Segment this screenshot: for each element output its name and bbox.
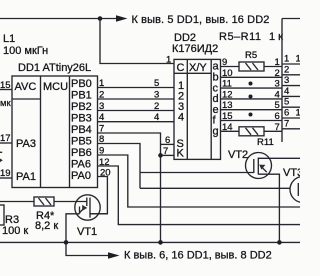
node S K tie junction xyxy=(158,153,163,158)
svg-text:4: 4 xyxy=(178,112,184,124)
wire bus to bottom arrow xyxy=(66,242,108,255)
svg-text:К выв. 6, 16 DD1, выв. 8 DD2: К выв. 6, 16 DD1, выв. 8 DD2 xyxy=(124,250,272,262)
svg-text:7: 7 xyxy=(99,124,104,135)
svg-text:PB3: PB3 xyxy=(71,113,92,125)
DD2 output f pin15 wire xyxy=(221,120,283,122)
svg-text:PB6: PB6 xyxy=(71,147,92,159)
svg-text:6: 6 xyxy=(275,111,280,122)
DD2 header divider xyxy=(174,72,211,74)
svg-text:7: 7 xyxy=(275,122,280,133)
DD1 divider left column xyxy=(40,76,42,188)
svg-text:C: C xyxy=(177,62,185,74)
svg-text:5: 5 xyxy=(275,100,280,111)
DD2 output d pin12 wire xyxy=(221,98,283,100)
svg-text:8: 8 xyxy=(99,134,104,145)
DD2 K pin 7 stub xyxy=(161,154,175,156)
svg-text:1: 1 xyxy=(284,54,289,65)
svg-text:100 к: 100 к xyxy=(2,225,28,237)
svg-text:L1: L1 xyxy=(3,33,15,45)
wire VT1 source to bus xyxy=(66,214,80,243)
DD2 output c pin11 wire xyxy=(221,87,283,89)
svg-text:100 мкГн: 100 мкГн xyxy=(3,45,48,57)
op IC DD1 ATtiny26L body xyxy=(12,76,98,188)
display inside wire row 3 xyxy=(282,85,300,87)
display inside wire row 4 xyxy=(282,95,300,97)
wire VT1 drain lead xyxy=(90,213,107,215)
svg-text:15: 15 xyxy=(0,80,11,91)
transistor VT3 (cut at edge) xyxy=(290,177,316,203)
svg-text:1: 1 xyxy=(275,57,280,68)
wire VT2 drain to right xyxy=(258,157,300,159)
svg-text:1: 1 xyxy=(166,55,171,66)
resistor R4 xyxy=(34,197,54,206)
svg-text:4: 4 xyxy=(284,86,289,97)
svg-text:VT3: VT3 xyxy=(283,167,300,179)
arrow to DD1 pins 6 16 DD2 pin 8 xyxy=(108,252,120,259)
svg-text:1: 1 xyxy=(296,54,301,65)
svg-text:R5: R5 xyxy=(245,50,257,61)
svg-text:5: 5 xyxy=(154,78,159,89)
display inside wire row 1 xyxy=(282,63,300,65)
svg-text:3: 3 xyxy=(284,75,289,86)
resistor R3 (cut at edge) xyxy=(0,205,4,225)
svg-text:1: 1 xyxy=(99,78,104,89)
svg-text:15: 15 xyxy=(222,111,233,122)
svg-text:PB2: PB2 xyxy=(71,101,92,113)
pin 17 wire DD1 left xyxy=(0,142,12,144)
node bus junction VT1 xyxy=(64,240,69,245)
resistor R5 xyxy=(239,62,264,71)
pin 19 wire DD1 left xyxy=(0,177,12,179)
svg-text:1: 1 xyxy=(296,108,301,119)
display inside wire row 2 xyxy=(282,74,300,76)
wire VT2 source to bus xyxy=(258,174,279,242)
svg-text:2: 2 xyxy=(99,90,104,101)
svg-text:К176ИД2: К176ИД2 xyxy=(172,43,218,55)
svg-text:AVC: AVC xyxy=(15,81,37,93)
svg-text:13: 13 xyxy=(222,100,233,111)
svg-text:11: 11 xyxy=(222,79,232,90)
pin 15 wire DD1 left xyxy=(0,89,12,91)
svg-text:3: 3 xyxy=(99,101,104,112)
svg-text:K: K xyxy=(177,148,185,160)
DD1 divider right column xyxy=(69,76,71,188)
svg-text:2: 2 xyxy=(284,64,289,75)
DD2 output column divider xyxy=(210,59,212,159)
svg-text:VT1: VT1 xyxy=(77,226,97,238)
transistor VT2 xyxy=(246,153,272,179)
svg-text:PA1: PA1 xyxy=(16,171,36,183)
transistor VT1 xyxy=(75,195,100,220)
svg-text:PB4: PB4 xyxy=(71,124,92,136)
wire VT2 gate branch xyxy=(140,172,254,174)
DD2 left column divider xyxy=(186,59,188,159)
wire PA6 pin12 staircase xyxy=(98,166,301,225)
ellipsis dots R6-R10 xyxy=(249,82,253,86)
node bus junction VT2 xyxy=(277,240,282,245)
wire PB5 pin8 to VT2 gate xyxy=(98,144,141,189)
svg-text:PB1: PB1 xyxy=(71,90,92,102)
svg-text:PA6: PA6 xyxy=(71,159,91,171)
wire PB0 pin1 to DD2 xyxy=(98,87,175,89)
svg-text:10: 10 xyxy=(222,68,233,79)
display HG box left edge xyxy=(282,18,300,20)
wire PB1 pin2 to DD2 xyxy=(98,98,175,100)
arrow to DD1 pin5 / DD2 pin16 xyxy=(116,15,128,22)
svg-text:К выв. 5 DD1, выв. 16 DD2: К выв. 5 DD1, выв. 16 DD2 xyxy=(132,14,270,26)
wire PB6 pin9 staircase xyxy=(98,155,301,207)
wire left edge to R4 xyxy=(0,201,34,203)
svg-text:14: 14 xyxy=(222,122,233,133)
wire PB3 pin4 to DD2 xyxy=(98,121,175,123)
wire R4 to VT1 gate xyxy=(54,201,87,203)
svg-text:X/Y: X/Y xyxy=(189,62,207,74)
svg-text:5: 5 xyxy=(284,97,289,108)
DD2 output e pin13 wire xyxy=(221,109,283,111)
svg-text:PB0: PB0 xyxy=(71,78,92,90)
svg-text:3: 3 xyxy=(154,90,159,101)
wire PB4 pin7 to S K tie xyxy=(98,133,161,242)
svg-text:12: 12 xyxy=(222,89,233,100)
svg-text:3: 3 xyxy=(275,79,280,90)
svg-text:6: 6 xyxy=(165,135,170,146)
svg-text:VT2: VT2 xyxy=(228,149,248,161)
component fragment at left edge xyxy=(0,151,2,153)
IC DD2 K176ID2 body xyxy=(174,59,221,159)
svg-text:2: 2 xyxy=(154,101,159,112)
svg-text:19: 19 xyxy=(0,168,11,179)
wire R5 to display pin1 xyxy=(264,66,282,68)
DD2 output a pin9 wire xyxy=(221,66,240,68)
svg-text:2: 2 xyxy=(275,68,280,79)
svg-text:PA0: PA0 xyxy=(71,170,91,182)
node top junction xyxy=(98,16,103,21)
wire from top rail down to DD2 pin 1 xyxy=(100,19,174,64)
svg-text:4: 4 xyxy=(275,89,280,100)
svg-text:7: 7 xyxy=(163,146,168,157)
display inside wire row 6 xyxy=(282,117,300,119)
svg-text:MCU: MCU xyxy=(43,81,68,93)
wire VT3 gate line xyxy=(140,187,291,189)
wire top supply rail xyxy=(0,18,117,20)
svg-text:PB5: PB5 xyxy=(71,136,92,148)
svg-text:4: 4 xyxy=(99,112,104,123)
display inside wire row 7 xyxy=(282,128,300,130)
node bus junction SK xyxy=(158,240,163,245)
DD2 output b pin10 wire xyxy=(221,76,283,78)
wire PB2 pin3 to DD2 xyxy=(98,110,175,112)
svg-text:1 к: 1 к xyxy=(269,31,283,43)
svg-text:мк: мк xyxy=(0,98,12,109)
svg-text:PA3: PA3 xyxy=(16,138,36,150)
DD1 AVC sub-box line xyxy=(12,98,41,100)
DD2 output g pin14 wire xyxy=(221,130,240,132)
svg-text:8,2 к: 8,2 к xyxy=(35,220,58,232)
svg-text:R5–R11: R5–R11 xyxy=(219,31,262,43)
svg-text:DD1 ATtiny26L: DD1 ATtiny26L xyxy=(18,62,91,74)
resistor R11 xyxy=(239,127,264,136)
svg-text:9: 9 xyxy=(222,57,227,68)
wire PA0 pin20 to VT1 drain xyxy=(90,177,107,214)
display inside wire row 5 xyxy=(282,106,300,108)
svg-text:6: 6 xyxy=(284,108,289,119)
svg-text:4: 4 xyxy=(154,112,159,123)
svg-text:g: g xyxy=(213,126,219,138)
wire ground bus xyxy=(0,241,300,243)
DD2 S pin 6 stub xyxy=(161,143,175,145)
svg-text:17: 17 xyxy=(0,133,11,144)
wire R11 to display pin7 xyxy=(264,130,282,132)
svg-text:R11: R11 xyxy=(257,137,274,148)
svg-text:7: 7 xyxy=(284,118,289,129)
